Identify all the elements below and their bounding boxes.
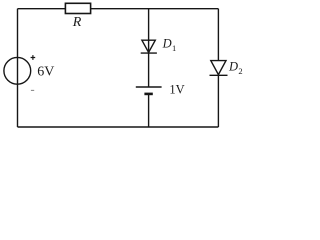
wire: top rail [18,8,219,10]
voltage source minus sign [31,89,34,91]
svg-text:1V: 1V [169,83,184,97]
svg-text:1: 1 [172,43,176,53]
diode D2 (triangle) [211,61,226,75]
label D1 [162,37,177,53]
label R [72,15,82,30]
wire: middle branch through D1 to battery [148,40,150,87]
svg-text:D: D [228,60,238,74]
wire: bottom rail [18,126,219,128]
svg-text:2: 2 [238,66,242,76]
diode D1 cathode bar [141,52,157,54]
diode D1 (triangle) [142,40,155,52]
voltage source plus sign [31,55,36,60]
svg-text:R: R [72,15,82,30]
wire: right rail (lower segment from D2) [217,75,219,127]
wire: middle branch upper (top rail to D1) [148,9,150,41]
voltage source V1 circle [4,57,31,84]
resistor R (box) [65,3,90,13]
label 6V [37,65,54,80]
label D2 [228,60,243,76]
wire: left rail [17,9,19,127]
svg-text:D: D [162,37,172,51]
wire: middle branch lower (battery to bottom rail) [148,94,150,127]
diode D2 cathode bar [210,74,228,76]
label 1V [169,83,184,97]
battery cell 1V: short negative plate [144,93,152,96]
svg-text:6V: 6V [37,65,54,80]
battery cell 1V: long positive plate [136,86,162,88]
wire: right rail (upper segment to D2) [217,9,219,61]
